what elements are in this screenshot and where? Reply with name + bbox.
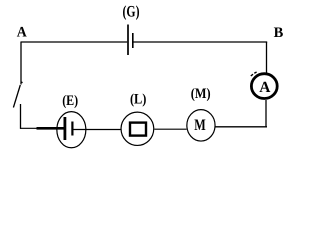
svg-text:M: M: [194, 117, 206, 134]
svg-text:A: A: [17, 24, 27, 40]
svg-text:(L): (L): [130, 91, 147, 107]
svg-text:(G): (G): [123, 3, 140, 20]
svg-text:B: B: [274, 25, 284, 41]
svg-text:A: A: [259, 79, 271, 96]
svg-text:(E): (E): [62, 93, 78, 109]
svg-text:(M): (M): [191, 86, 211, 102]
